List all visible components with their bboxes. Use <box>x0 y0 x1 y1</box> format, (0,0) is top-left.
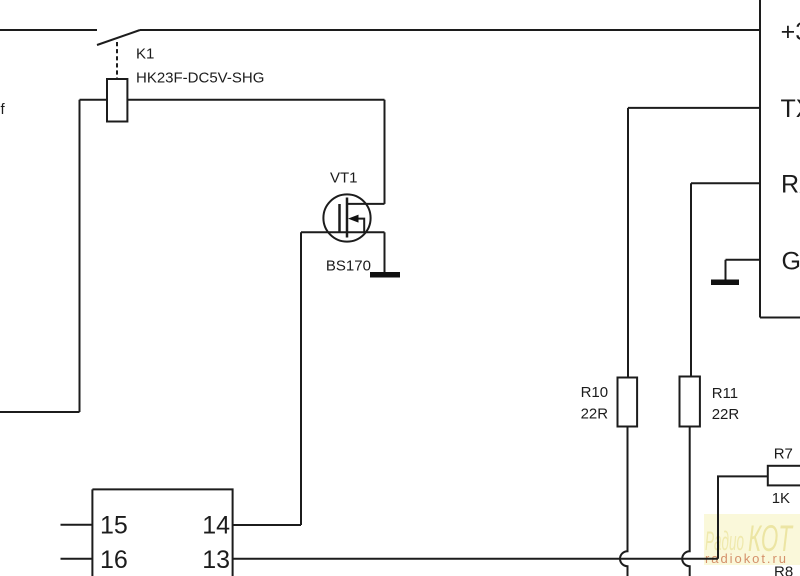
svg-text:R8: R8 <box>774 563 793 576</box>
svg-text:G: G <box>782 247 800 275</box>
wire source/gate horizontal <box>301 231 385 233</box>
svg-text:VT1: VT1 <box>330 169 358 186</box>
wire RX vertical <box>690 183 692 376</box>
wire GND pin <box>726 259 761 261</box>
svg-text:K1: K1 <box>136 46 154 63</box>
wire R7 left and down <box>718 476 768 558</box>
switch K1 contact <box>97 30 140 45</box>
IC box U2 outline <box>92 489 232 576</box>
wire left bottom horizontal <box>0 411 80 413</box>
wire pin 15 stub <box>61 524 93 526</box>
svg-text:15: 15 <box>100 511 128 539</box>
IC box U1 right edge <box>759 0 761 318</box>
svg-text:TX: TX <box>781 95 800 123</box>
svg-text:16: 16 <box>100 546 128 574</box>
resistor R11 <box>680 377 700 427</box>
svg-text:13: 13 <box>202 546 230 574</box>
transistor VT1 gate bar <box>338 204 341 232</box>
wire TX pin <box>628 107 760 109</box>
wire GND drop <box>725 260 727 280</box>
wire source vertical <box>384 232 386 272</box>
transistor VT1 body circle <box>323 194 370 241</box>
relay coil K1 <box>107 79 127 122</box>
svg-text:R10: R10 <box>581 384 609 401</box>
ground symbol at VT1 source <box>370 272 400 278</box>
wire gate vertical to pin 14 <box>300 232 302 525</box>
wire R10 down with hop <box>620 427 627 576</box>
svg-text:14: 14 <box>202 511 230 539</box>
resistor R7 <box>768 466 800 486</box>
IC box U1 bottom edge <box>760 317 800 319</box>
svg-text:22R: 22R <box>581 406 609 423</box>
wire RX pin <box>691 182 760 184</box>
wire top bus left <box>0 29 97 31</box>
wire left vertical <box>79 100 81 412</box>
wire pin 16 stub <box>61 558 93 560</box>
svg-text:+3: +3 <box>781 18 800 46</box>
watermark radiokot <box>704 514 800 566</box>
wire pin 14 horizontal <box>233 524 301 526</box>
wire drain vertical <box>384 100 386 204</box>
wire relay left stub <box>80 99 108 101</box>
transistor VT1 substrate link <box>356 219 364 233</box>
ground symbol at IC GND pin <box>711 280 739 286</box>
wire top bus right <box>140 29 760 31</box>
transistor VT1 channel bar <box>346 198 349 238</box>
wire TX vertical <box>627 108 629 378</box>
resistor R10 <box>618 378 638 427</box>
wire pin 13 bus <box>233 558 718 560</box>
svg-text:RX: RX <box>781 171 800 199</box>
wire R11 down with hop <box>682 427 689 576</box>
svg-text:BS170: BS170 <box>326 258 371 275</box>
svg-text:R11: R11 <box>712 385 738 402</box>
svg-text:22R: 22R <box>712 406 740 423</box>
svg-text:1K: 1K <box>772 490 790 507</box>
svg-text:R7: R7 <box>774 446 793 463</box>
dashed actuator line K1 <box>116 42 118 79</box>
svg-text:HK23F-DC5V-SHG: HK23F-DC5V-SHG <box>136 70 264 87</box>
transistor VT1 substrate arrow <box>348 215 359 223</box>
wire relay right to drain <box>127 99 384 101</box>
wire drain horizontal <box>347 203 385 205</box>
